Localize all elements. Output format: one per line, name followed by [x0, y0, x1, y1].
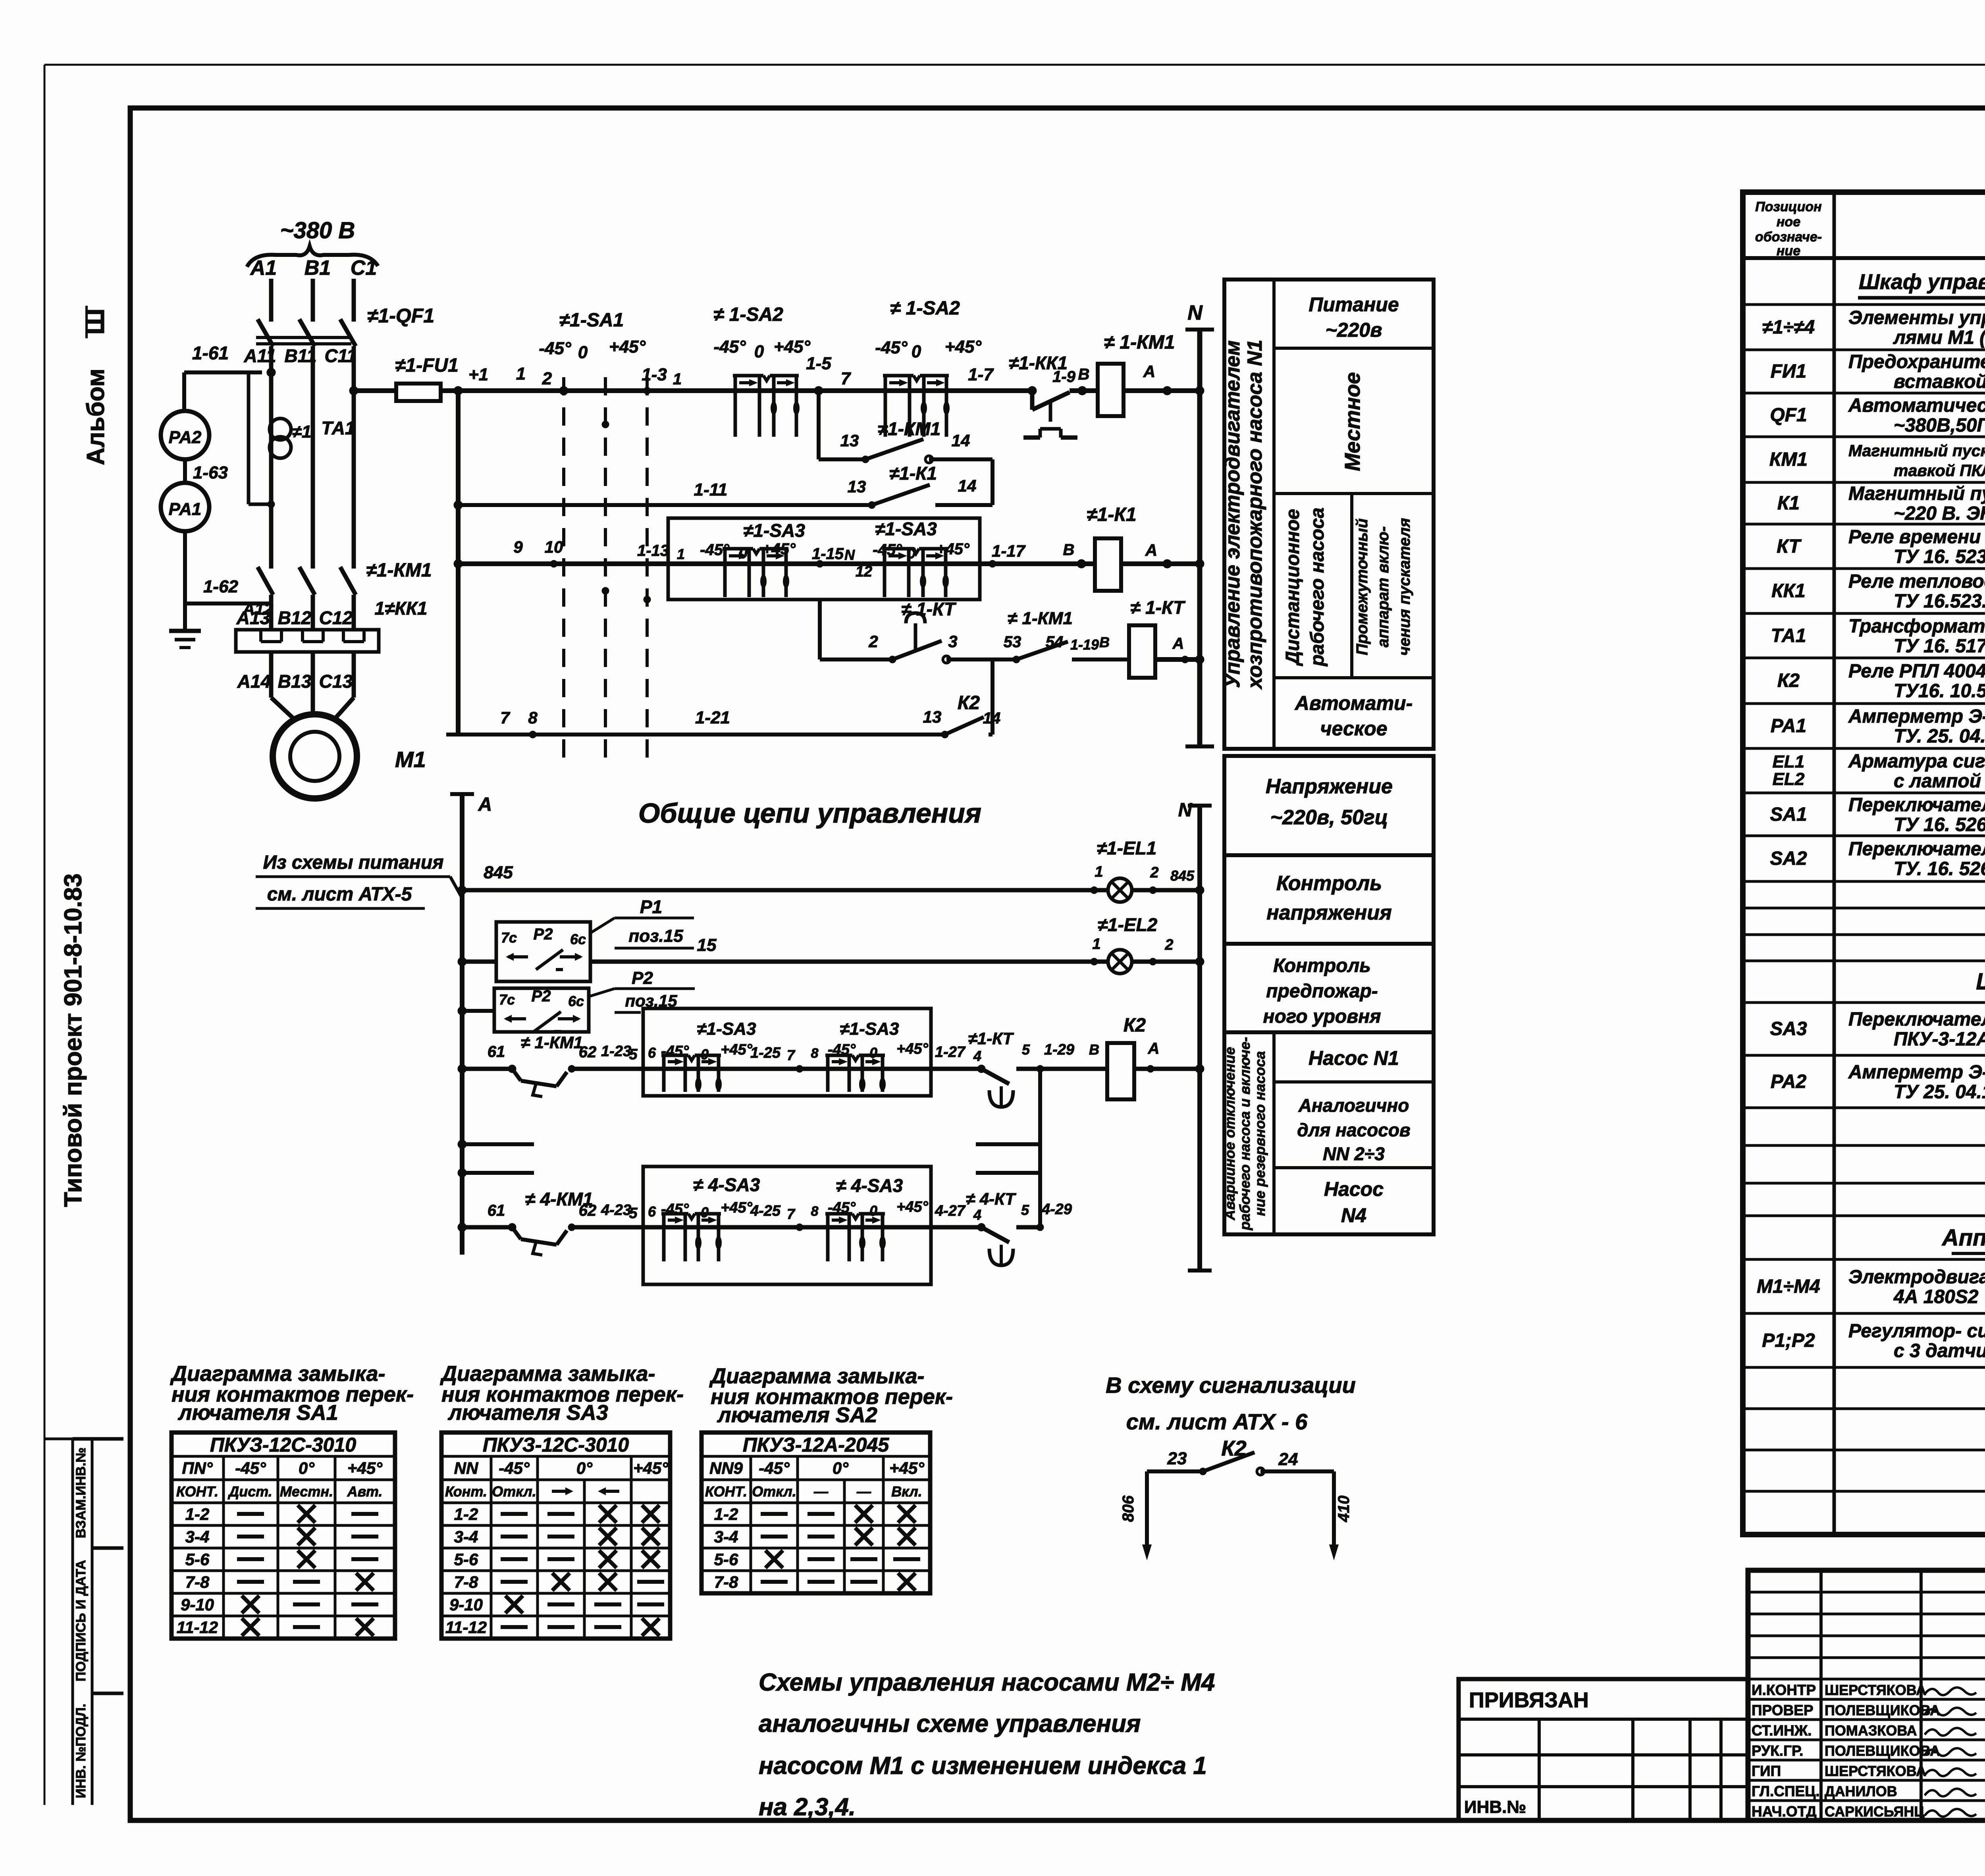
svg-text:К2: К2	[958, 692, 980, 713]
svg-text:Напряжение: Напряжение	[1266, 775, 1393, 798]
svg-text:23: 23	[1167, 1449, 1187, 1468]
svg-text:А: А	[1145, 541, 1157, 559]
svg-text:EL2: EL2	[1773, 769, 1805, 789]
svg-text:≠1-КТ: ≠1-КТ	[968, 1029, 1014, 1048]
svg-text:+45°: +45°	[347, 1459, 383, 1477]
svg-text:62: 62	[579, 1043, 597, 1061]
svg-text:5-6: 5-6	[714, 1550, 738, 1569]
svg-text:806: 806	[1120, 1495, 1137, 1522]
svg-text:РА2: РА2	[169, 428, 202, 447]
svg-text:≠1-SA3: ≠1-SA3	[743, 520, 805, 541]
svg-text:7-8: 7-8	[714, 1573, 738, 1591]
svg-text:7-8: 7-8	[185, 1573, 210, 1591]
svg-text:ТУ 16.523.549-78: ТУ 16.523.549-78	[1894, 591, 1985, 612]
svg-text:насосом М1 с изменением инд: насосом М1 с изменением индекса 1	[759, 1752, 1207, 1780]
svg-text:обозначе-: обозначе-	[1755, 229, 1822, 245]
svg-text:4А 180S2: 4А 180S2	[1893, 1286, 1979, 1307]
svg-text:0°: 0°	[576, 1459, 593, 1477]
svg-text:1-2: 1-2	[185, 1505, 210, 1523]
svg-text:14: 14	[983, 710, 1001, 727]
svg-text:NN 2÷3: NN 2÷3	[1323, 1143, 1385, 1164]
svg-text:3-4: 3-4	[185, 1527, 210, 1546]
svg-text:Насос N1: Насос N1	[1309, 1047, 1399, 1069]
svg-text:4-23: 4-23	[601, 1202, 631, 1219]
svg-text:В: В	[1099, 634, 1110, 650]
svg-text:SA1: SA1	[1770, 804, 1807, 825]
svg-text:Авт.: Авт.	[347, 1483, 383, 1500]
svg-text:4: 4	[973, 1048, 981, 1064]
svg-text:≠ 4-SA3: ≠ 4-SA3	[693, 1174, 760, 1195]
svg-text:1-25: 1-25	[750, 1045, 781, 1061]
svg-text:Электродвигатель ~ 380 В N=: Электродвигатель ~ 380 В N=22 кВт.	[1848, 1267, 1985, 1288]
svg-text:0°: 0°	[833, 1459, 849, 1477]
svg-text:5: 5	[1022, 1041, 1030, 1058]
svg-text:+45°: +45°	[896, 1199, 928, 1215]
svg-text:-45°: -45°	[713, 337, 746, 357]
svg-text:1: 1	[673, 370, 682, 388]
svg-text:1: 1	[1092, 936, 1100, 952]
svg-text:Р1;Р2: Р1;Р2	[1762, 1330, 1815, 1351]
svg-text:5: 5	[1021, 1202, 1029, 1218]
svg-text:1-3: 1-3	[642, 365, 667, 384]
svg-text:Автоматический выключатель АЕ: Автоматический выключатель АЕ 2056-10нв	[1848, 395, 1985, 416]
svg-text:Местное: Местное	[1341, 372, 1364, 471]
svg-text:~220в: ~220в	[1326, 319, 1382, 341]
svg-text:+45°: +45°	[945, 337, 982, 357]
svg-text:≠1-КМ1: ≠1-КМ1	[878, 418, 940, 439]
svg-text:вставкой ПВДІ-4УЗ: вставкой ПВДІ-4УЗ	[1894, 371, 1985, 392]
svg-text:Регулятор- сигнализатор уров: Регулятор- сигнализатор уровня	[1848, 1321, 1985, 1342]
svg-text:Контроль: Контроль	[1273, 955, 1371, 976]
svg-text:845: 845	[1170, 868, 1195, 884]
svg-text:14: 14	[952, 431, 970, 450]
svg-text:1-21: 1-21	[695, 708, 730, 727]
svg-text:13: 13	[923, 708, 942, 726]
svg-text:ПОЛЕВЩИКОВА: ПОЛЕВЩИКОВА	[1825, 1702, 1940, 1718]
svg-text:Дистанционное: Дистанционное	[1282, 509, 1303, 667]
svg-text:24: 24	[1278, 1450, 1298, 1469]
svg-text:11-12: 11-12	[445, 1618, 487, 1637]
svg-text:6с: 6с	[570, 931, 586, 947]
svg-text:Контроль: Контроль	[1276, 872, 1382, 895]
svg-text:Переключатель ПКУЗ-12С-3010: Переключатель ПКУЗ-12С-3010	[1848, 794, 1985, 816]
svg-text:Магнитный пускатель ПМЛ Н000: Магнитный пускатель ПМЛ Н0004	[1848, 483, 1985, 504]
svg-text:ние резервного насоса: ние резервного насоса	[1252, 1051, 1268, 1216]
svg-text:6с: 6с	[568, 993, 584, 1009]
svg-text:Из схемы питания: Из схемы питания	[263, 852, 443, 873]
svg-text:ТУ 16. 523. 472-74: ТУ 16. 523. 472-74	[1894, 546, 1985, 567]
svg-text:САРКИСЬЯНЦ: САРКИСЬЯНЦ	[1825, 1803, 1925, 1820]
svg-text:1-15: 1-15	[812, 545, 844, 563]
svg-text:3-4: 3-4	[714, 1527, 738, 1546]
svg-text:ное: ное	[1777, 214, 1800, 229]
svg-text:ПN°: ПN°	[182, 1459, 213, 1477]
svg-text:+45°: +45°	[721, 1041, 752, 1058]
svg-text:—: —	[813, 1483, 829, 1500]
svg-text:КТ: КТ	[1777, 536, 1802, 557]
svg-text:410: 410	[1335, 1496, 1353, 1523]
svg-text:ПРИВЯЗАН: ПРИВЯЗАН	[1469, 1688, 1589, 1712]
svg-text:В13: В13	[278, 671, 312, 692]
svg-text:15: 15	[697, 935, 717, 955]
svg-text:7: 7	[787, 1047, 796, 1063]
svg-text:845: 845	[484, 863, 513, 882]
svg-text:≠1-SA3: ≠1-SA3	[697, 1019, 756, 1039]
svg-text:Р2: Р2	[632, 968, 653, 988]
svg-text:SA2: SA2	[1770, 848, 1807, 869]
svg-text:В: В	[1063, 541, 1075, 559]
svg-text:ПКУЗ-12А-2045: ПКУЗ-12А-2045	[743, 1434, 889, 1456]
svg-text:Конт.: Конт.	[445, 1483, 487, 1500]
svg-text:лючателя SA2: лючателя SA2	[717, 1403, 877, 1427]
svg-text:ИНВ.№: ИНВ.№	[1464, 1797, 1526, 1817]
svg-text:К2: К2	[1124, 1015, 1146, 1036]
svg-text:≠ 1-КМ1: ≠ 1-КМ1	[521, 1033, 583, 1052]
svg-text:на 2,3,4.: на 2,3,4.	[759, 1793, 856, 1821]
svg-text:QF1: QF1	[1770, 405, 1807, 426]
svg-text:Амперметр Э-377 50А КЛ.1,: Амперметр Э-377 50А КЛ.1,5 50ГЦ	[1848, 1062, 1985, 1083]
svg-text:Питание: Питание	[1309, 293, 1399, 316]
svg-text:рабочего насоса: рабочего насоса	[1307, 507, 1328, 667]
svg-text:5: 5	[629, 1205, 638, 1222]
svg-text:≠1-К1: ≠1-К1	[1087, 504, 1136, 525]
svg-text:1: 1	[677, 546, 685, 562]
svg-text:ТУ 16. 517. 442-75: ТУ 16. 517. 442-75	[1894, 636, 1985, 657]
svg-text:предпожар-: предпожар-	[1266, 981, 1378, 1002]
svg-text:1-17: 1-17	[992, 542, 1026, 560]
svg-text:Откл.: Откл.	[492, 1483, 536, 1500]
svg-text:КМ1: КМ1	[1769, 449, 1808, 470]
svg-text:≠ 1-КТ: ≠ 1-КТ	[901, 599, 957, 619]
svg-text:Насос: Насос	[1324, 1178, 1384, 1200]
svg-text:1: 1	[516, 364, 526, 384]
svg-text:7с: 7с	[501, 929, 517, 946]
svg-text:Трансформатор тока ТК-20 - 0.: Трансформатор тока ТК-20 - 0.5- 50/5УЗ	[1848, 616, 1985, 637]
svg-text:1-29: 1-29	[1044, 1041, 1074, 1058]
svg-text:≠1-SA3: ≠1-SA3	[840, 1019, 899, 1039]
svg-text:14: 14	[958, 476, 977, 495]
svg-text:N4: N4	[1341, 1204, 1366, 1226]
svg-text:А14: А14	[237, 671, 271, 692]
svg-text:10: 10	[545, 538, 563, 556]
svg-text:1≠КК1: 1≠КК1	[375, 598, 428, 619]
svg-text:Откл.: Откл.	[752, 1483, 796, 1500]
svg-text:0: 0	[869, 1203, 877, 1219]
svg-text:+45°: +45°	[721, 1199, 752, 1216]
svg-text:Реле времени РВП 72-332300: Реле времени РВП 72-332300	[1848, 526, 1985, 548]
svg-text:В1: В1	[304, 256, 331, 280]
svg-text:К2: К2	[1777, 670, 1800, 691]
svg-text:7: 7	[500, 708, 510, 727]
svg-text:13: 13	[848, 477, 866, 496]
svg-text:ГЛ.СПЕЦ.: ГЛ.СПЕЦ.	[1752, 1783, 1820, 1799]
svg-text:≠ 1-КМ1: ≠ 1-КМ1	[1104, 332, 1175, 353]
svg-text:ПКУЗ-12С-3010: ПКУЗ-12С-3010	[483, 1434, 629, 1456]
svg-text:54: 54	[1046, 633, 1064, 651]
svg-text:Вкл.: Вкл.	[891, 1483, 922, 1500]
svg-text:лючателя SA1: лючателя SA1	[177, 1401, 338, 1425]
svg-text:4-29: 4-29	[1041, 1201, 1072, 1218]
svg-text:8: 8	[811, 1204, 819, 1219]
svg-text:В12: В12	[278, 607, 312, 628]
svg-text:7-8: 7-8	[454, 1573, 478, 1591]
svg-text:2: 2	[868, 632, 878, 651]
svg-text:Арматура сигнальной лампы АС: Арматура сигнальной лампы АСА-11У2	[1848, 751, 1985, 772]
svg-text:~220 В. ЭН 10А ТУ 16- 526.: ~220 В. ЭН 10А ТУ 16- 526. 437-78	[1894, 503, 1985, 524]
svg-text:6: 6	[648, 1203, 656, 1220]
svg-text:СТ.ИНЖ.: СТ.ИНЖ.	[1752, 1722, 1812, 1739]
svg-text:N: N	[1187, 301, 1203, 324]
svg-text:2: 2	[542, 369, 552, 388]
svg-text:1-2: 1-2	[454, 1505, 478, 1523]
svg-text:Ш: Ш	[80, 308, 110, 335]
svg-text:+45°: +45°	[889, 1459, 925, 1477]
svg-text:0: 0	[754, 342, 764, 361]
svg-text:лючателя SA3: лючателя SA3	[447, 1401, 608, 1425]
svg-text:ШЕРСТЯКОВА: ШЕРСТЯКОВА	[1825, 1682, 1926, 1698]
svg-text:ИНВ. №ПОДЛ.: ИНВ. №ПОДЛ.	[73, 1704, 89, 1798]
svg-text:8: 8	[811, 1046, 819, 1061]
svg-text:ПРОВЕР: ПРОВЕР	[1752, 1702, 1813, 1718]
svg-text:+45°: +45°	[633, 1459, 669, 1477]
svg-text:С1: С1	[351, 256, 377, 280]
svg-text:Промежуточный: Промежуточный	[1353, 519, 1371, 656]
svg-text:1-61: 1-61	[192, 343, 229, 363]
svg-text:ТУ. 25. 04. 1058-76: ТУ. 25. 04. 1058-76	[1894, 726, 1985, 747]
svg-text:М1: М1	[395, 747, 426, 772]
svg-text:ПОЛЕВЩИКОВА: ПОЛЕВЩИКОВА	[1825, 1743, 1940, 1759]
svg-text:ТУ 16. 526. 047- 74: ТУ 16. 526. 047- 74	[1894, 814, 1985, 835]
svg-text:≠1-QF1: ≠1-QF1	[367, 305, 434, 327]
svg-text:≠ 4-SA3: ≠ 4-SA3	[836, 1175, 903, 1196]
svg-text:≠1-КМ1: ≠1-КМ1	[366, 560, 432, 581]
svg-text:NN: NN	[454, 1459, 479, 1477]
svg-text:Реле РПЛ 4004 ~220В: Реле РПЛ 4004 ~220В	[1848, 661, 1985, 682]
svg-text:≠1: ≠1	[292, 422, 312, 442]
svg-text:КК1: КК1	[1771, 580, 1806, 602]
svg-text:Схемы управления насосами М: Схемы управления насосами М2÷ М4	[759, 1669, 1215, 1696]
svg-text:≠1-EL1: ≠1-EL1	[1097, 838, 1157, 858]
svg-text:рабочего насоса и включе-: рабочего насоса и включе-	[1237, 1037, 1253, 1231]
svg-text:3: 3	[948, 632, 957, 651]
svg-text:3-4: 3-4	[454, 1527, 478, 1546]
svg-text:ПОДПИСЬ И ДАТА: ПОДПИСЬ И ДАТА	[73, 1560, 89, 1681]
svg-text:ТУ16. 10.523. 554-98: ТУ16. 10.523. 554-98	[1894, 681, 1985, 702]
svg-text:РУК.ГР.: РУК.ГР.	[1752, 1743, 1803, 1759]
svg-text:НАЧ.ОТД: НАЧ.ОТД	[1752, 1803, 1817, 1820]
svg-text:2: 2	[1164, 937, 1173, 953]
svg-text:0: 0	[912, 342, 921, 361]
svg-text:С12: С12	[319, 607, 353, 628]
svg-text:для насосов: для насосов	[1297, 1120, 1410, 1140]
svg-text:КОНТ.: КОНТ.	[176, 1483, 218, 1500]
svg-text:ДАНИЛОВ: ДАНИЛОВ	[1825, 1783, 1897, 1799]
svg-text:2: 2	[1150, 864, 1158, 881]
svg-text:ТУ 25. 04.1058 -76: ТУ 25. 04.1058 -76	[1894, 1082, 1985, 1103]
svg-text:≠1-EL2: ≠1-EL2	[1098, 914, 1158, 935]
svg-text:7: 7	[787, 1206, 796, 1222]
svg-text:Местн.: Местн.	[280, 1483, 333, 1500]
svg-text:Диаграмма замыка-: Диаграмма замыка-	[170, 1362, 385, 1386]
svg-text:чения пускателя: чения пускателя	[1396, 518, 1413, 656]
svg-text:NN9: NN9	[709, 1459, 743, 1477]
svg-text:≠ 1-SA2: ≠ 1-SA2	[713, 304, 783, 325]
svg-text:-45°: -45°	[875, 338, 908, 357]
svg-text:≠1-SA1: ≠1-SA1	[559, 310, 624, 331]
svg-text:В: В	[1089, 1041, 1099, 1058]
svg-text:Переключатель универсальный: Переключатель универсальный	[1848, 1009, 1985, 1030]
svg-text:ВЗАМ.ИНВ.№: ВЗАМ.ИНВ.№	[73, 1448, 89, 1539]
svg-text:+45°: +45°	[774, 337, 811, 357]
svg-text:Переключатель ПКУЗ-12А- 2045: Переключатель ПКУЗ-12А- 2045	[1848, 839, 1985, 860]
svg-text:В: В	[1078, 366, 1090, 383]
svg-text:1-19: 1-19	[1070, 636, 1099, 653]
svg-text:9: 9	[513, 538, 523, 556]
svg-text:Р2: Р2	[534, 925, 553, 943]
svg-text:8: 8	[528, 708, 538, 727]
svg-text:5: 5	[629, 1046, 638, 1063]
svg-text:SA3: SA3	[1770, 1018, 1807, 1039]
svg-text:12: 12	[856, 563, 872, 580]
svg-text:Дист.: Дист.	[227, 1483, 272, 1500]
svg-text:0°: 0°	[299, 1459, 315, 1477]
svg-text:Диаграмма замыка-: Диаграмма замыка-	[709, 1364, 924, 1388]
svg-text:-45°: -45°	[499, 1459, 530, 1477]
svg-text:Альбом: Альбом	[82, 368, 110, 465]
svg-text:13: 13	[840, 431, 859, 450]
svg-text:А: А	[1148, 1040, 1160, 1057]
svg-text:≠1-К1: ≠1-К1	[889, 463, 937, 484]
svg-text:-45°: -45°	[759, 1459, 790, 1477]
svg-text:РА2: РА2	[1771, 1071, 1807, 1092]
svg-text:Элементы управления электрод: Элементы управления электродвигате-	[1848, 307, 1985, 328]
svg-text:см. лист АТХ-5: см. лист АТХ-5	[267, 884, 412, 905]
svg-text:А: А	[1143, 362, 1155, 381]
svg-text:Реле тепловое РТЛ 20 5104: Реле тепловое РТЛ 20 5104	[1848, 571, 1985, 592]
svg-text:А13: А13	[236, 607, 270, 628]
svg-text:ние: ние	[1777, 243, 1800, 258]
svg-text:7с: 7с	[499, 991, 515, 1008]
svg-text:Амперметр Э-377 50 А. КЛ.1.: Амперметр Э-377 50 А. КЛ.1.5 50ГЦ	[1848, 706, 1985, 727]
svg-text:61: 61	[488, 1043, 505, 1060]
svg-text:ТА1: ТА1	[1771, 625, 1806, 646]
svg-text:Общие цепи управления: Общие цепи управления	[638, 798, 981, 829]
svg-text:53: 53	[1004, 633, 1021, 651]
svg-text:1-63: 1-63	[193, 463, 228, 482]
svg-text:+45°: +45°	[609, 337, 646, 357]
svg-text:1-2: 1-2	[714, 1505, 738, 1523]
svg-text:Диаграмма замыка-: Диаграмма замыка-	[440, 1362, 655, 1386]
svg-text:9-10: 9-10	[449, 1595, 483, 1614]
svg-text:ного уровня: ного уровня	[1263, 1006, 1381, 1027]
svg-text:Аналогично: Аналогично	[1298, 1095, 1409, 1116]
svg-text:1-11: 1-11	[694, 480, 728, 499]
svg-text:+1: +1	[468, 365, 488, 384]
svg-text:КОНТ.: КОНТ.	[705, 1483, 747, 1500]
svg-text:ческое: ческое	[1320, 717, 1387, 740]
svg-text:В схему сигнализации: В схему сигнализации	[1106, 1373, 1356, 1398]
svg-text:4-27: 4-27	[935, 1203, 966, 1219]
svg-text:ШЕРСТЯКОВА: ШЕРСТЯКОВА	[1825, 1763, 1926, 1779]
svg-text:Автомати-: Автомати-	[1294, 692, 1413, 714]
svg-text:С13: С13	[319, 671, 353, 692]
svg-text:Щит оператора: Щит оператора	[1976, 969, 1985, 995]
svg-text:1-13: 1-13	[637, 542, 669, 559]
svg-text:≠ 1-SA2: ≠ 1-SA2	[890, 298, 960, 319]
svg-text:лями М1 ( М2+М4): лями М1 ( М2+М4)	[1893, 327, 1985, 348]
svg-text:Типовой проект 901-8-10.83: Типовой проект 901-8-10.83	[60, 873, 87, 1207]
svg-text:≠ 1-КТ: ≠ 1-КТ	[1130, 597, 1186, 618]
svg-text:с лампой ТЛ~220В ТУ16. 535.6: с лампой ТЛ~220В ТУ16. 535.681 76	[1894, 771, 1985, 792]
svg-text:N: N	[1178, 800, 1193, 821]
svg-text:см. лист АТХ - 6: см. лист АТХ - 6	[1126, 1409, 1308, 1434]
svg-text:EL1: EL1	[1773, 752, 1805, 771]
svg-text:+45°: +45°	[896, 1041, 928, 1057]
svg-text:поз.15: поз.15	[628, 926, 683, 946]
svg-text:Предохранитель ПРС- 6УЗ с пл: Предохранитель ПРС- 6УЗ с плавкой	[1848, 351, 1985, 372]
svg-text:ТА1: ТА1	[321, 418, 355, 438]
svg-text:-45°: -45°	[539, 339, 571, 358]
svg-text:А: А	[1172, 635, 1184, 652]
svg-text:А1: А1	[250, 256, 277, 280]
svg-text:FИ1: FИ1	[1771, 361, 1807, 382]
svg-text:≠1-FU1: ≠1-FU1	[395, 355, 459, 376]
svg-text:Р2: Р2	[532, 987, 551, 1005]
svg-text:1-5: 1-5	[806, 354, 831, 373]
svg-text:9-10: 9-10	[181, 1595, 214, 1614]
svg-text:~380В,50Гц І расц. 50АІ отс 1: ~380В,50Гц І расц. 50АІ отс 12І ном.	[1894, 415, 1985, 436]
svg-text:-45°: -45°	[235, 1459, 266, 1477]
svg-text:11-12: 11-12	[177, 1618, 218, 1637]
svg-text:хозпротивопожарного насоса N: хозпротивопожарного насоса N1	[1243, 339, 1266, 690]
svg-text:А: А	[478, 794, 492, 815]
svg-text:4: 4	[973, 1207, 981, 1223]
svg-text:≠ 4-КТ: ≠ 4-КТ	[966, 1190, 1016, 1208]
svg-text:4-25: 4-25	[750, 1203, 781, 1219]
svg-text:РА1: РА1	[169, 499, 202, 519]
svg-text:1-23: 1-23	[601, 1043, 631, 1060]
svg-text:Аварийное отключение: Аварийное отключение	[1222, 1047, 1238, 1220]
svg-text:0: 0	[578, 343, 588, 362]
svg-text:аналогичны схеме управления: аналогичны схеме управления	[759, 1710, 1141, 1737]
svg-text:5-6: 5-6	[454, 1550, 478, 1569]
svg-text:1: 1	[1095, 864, 1103, 880]
svg-text:≠1-SA3: ≠1-SA3	[875, 519, 937, 539]
svg-text:Аппаратура по месту: Аппаратура по месту	[1941, 1225, 1985, 1251]
svg-text:7: 7	[841, 369, 852, 388]
svg-text:≠1÷≠4: ≠1÷≠4	[1762, 317, 1815, 338]
svg-text:≠ 4-КМ1: ≠ 4-КМ1	[525, 1189, 593, 1209]
svg-text:1-7: 1-7	[968, 365, 994, 384]
svg-text:—: —	[856, 1483, 871, 1500]
svg-text:ПКУ-3-12А-3016: ПКУ-3-12А-3016	[1894, 1029, 1985, 1050]
svg-text:К1: К1	[1777, 493, 1800, 514]
svg-text:аппарат вклю-: аппарат вклю-	[1374, 526, 1392, 648]
svg-text:ТУ. 16. 526. 047-74: ТУ. 16. 526. 047-74	[1894, 858, 1985, 879]
svg-text:И.КОНТР: И.КОНТР	[1752, 1682, 1816, 1698]
svg-text:напряжения: напряжения	[1266, 901, 1391, 924]
svg-text:N: N	[844, 547, 855, 563]
svg-text:ГИП: ГИП	[1752, 1763, 1781, 1779]
svg-text:1-62: 1-62	[203, 577, 239, 596]
svg-text:Позицион: Позицион	[1755, 199, 1821, 214]
svg-text:61: 61	[488, 1202, 505, 1219]
svg-text:Управление электродвигателем: Управление электродвигателем	[1221, 340, 1244, 688]
svg-text:0: 0	[869, 1045, 877, 1061]
svg-text:5-6: 5-6	[185, 1550, 210, 1569]
svg-text:Магнитный пускатель ПМА 4100: Магнитный пускатель ПМА 4100 04 с прис-	[1848, 442, 1985, 460]
svg-text:ПОМАЗКОВА: ПОМАЗКОВА	[1825, 1722, 1917, 1739]
